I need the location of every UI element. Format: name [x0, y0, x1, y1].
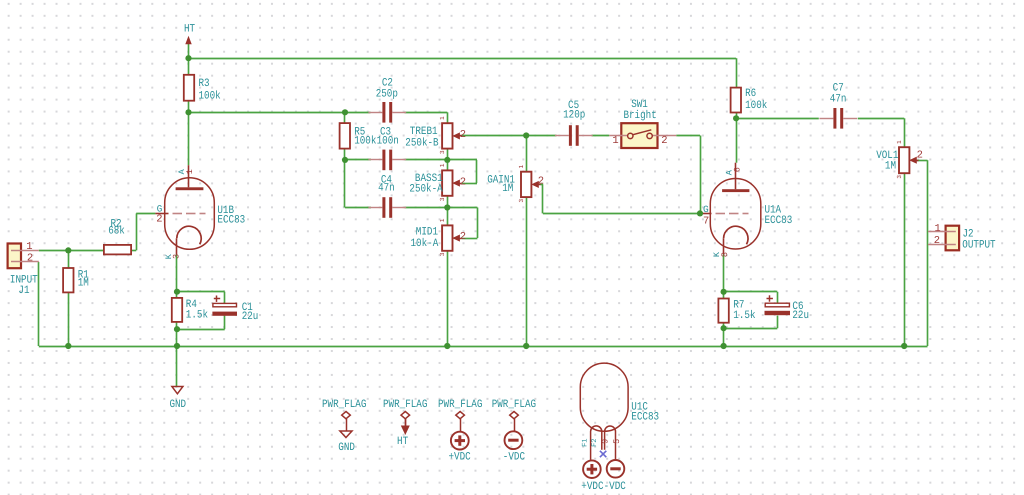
svg-text:47n: 47n	[378, 183, 395, 195]
svg-text:1M: 1M	[502, 183, 513, 195]
svg-text:6: 6	[733, 167, 743, 172]
junction at 723.6,328.2	[721, 325, 727, 331]
capacitor C7	[833, 108, 836, 129]
wire J1 to R2	[39, 250, 104, 252]
wire J1 pin2 down	[38, 262, 40, 346]
wire ground bus	[39, 346, 928, 348]
wire TREB bottom	[447, 149, 449, 160]
wire R7 node to bus	[723, 328, 725, 346]
svg-text:1: 1	[612, 135, 618, 147]
wire C7 to corner	[858, 118, 904, 120]
svg-text:PWR_FLAG: PWR_FLAG	[492, 399, 537, 411]
power flag PWR_FLAG -VDC	[510, 412, 519, 419]
wire C2 to TREB	[405, 112, 448, 114]
wire C3 left	[345, 159, 371, 161]
wire R2 to U1B grid	[131, 250, 136, 252]
svg-text:OUTPUT: OUTPUT	[962, 240, 996, 252]
junction at 447.3,159.9	[444, 157, 450, 163]
wire C5 to SW1	[592, 135, 610, 137]
switch SW1	[621, 123, 657, 148]
wire R4 bottom	[176, 322, 178, 329]
wire BASS bottom	[447, 196, 449, 208]
svg-text:PWR_FLAG: PWR_FLAG	[438, 399, 483, 411]
wire SW1 drop to grid	[700, 136, 702, 214]
power flag PWR_FLAG HT	[401, 412, 410, 419]
wire R5 node down	[344, 160, 346, 208]
capacitor C4	[382, 197, 385, 218]
wire node to U1A anode	[736, 118, 738, 162]
svg-text:2: 2	[917, 150, 923, 162]
wire C6 bottom	[777, 316, 779, 329]
wire R1 to bus	[68, 292, 70, 346]
svg-text:2: 2	[27, 253, 33, 265]
svg-text:1: 1	[935, 223, 941, 235]
resistor R5	[340, 123, 350, 149]
connector J2	[946, 226, 960, 251]
svg-text:120p: 120p	[563, 110, 585, 122]
wire R3 to node	[188, 101, 190, 113]
potentiometer BASS1	[442, 170, 452, 195]
svg-text:10k-A: 10k-A	[411, 237, 439, 250]
junction at 345,112.3	[342, 109, 348, 115]
svg-text:1: 1	[518, 165, 525, 169]
svg-text:3: 3	[896, 175, 903, 179]
junction at 68.3,250.4	[65, 247, 71, 253]
power flag PWR_FLAG GND	[342, 412, 351, 419]
capacitor C2	[382, 102, 385, 123]
svg-text:1: 1	[185, 169, 195, 174]
svg-text:68k: 68k	[108, 225, 125, 238]
junction at 526.2,135.5	[523, 132, 529, 138]
svg-text:-VDC: -VDC	[604, 481, 626, 493]
svg-text:100k: 100k	[745, 99, 767, 112]
resistor R6	[731, 88, 741, 113]
wire U1A cathode down	[723, 255, 725, 292]
wire R6 to node	[736, 113, 738, 119]
wire BASS top	[447, 160, 449, 171]
svg-text:1.5k: 1.5k	[186, 309, 208, 322]
svg-text:1: 1	[26, 241, 32, 253]
wire TREB top drop	[447, 112, 449, 124]
svg-text:1: 1	[439, 218, 446, 222]
wire R7 top	[723, 292, 725, 299]
junction at 447.3,346	[444, 343, 450, 349]
capacitor C3	[382, 150, 385, 171]
wire rail to R6	[736, 58, 738, 87]
wire C4 left	[345, 207, 371, 209]
junction at 904.2,346	[901, 343, 907, 349]
wire top HT rail	[189, 58, 737, 60]
svg-text:3: 3	[439, 150, 446, 154]
capacitor C6	[765, 303, 789, 307]
svg-text:1M: 1M	[885, 161, 896, 173]
resistor R7	[718, 299, 728, 323]
wire node to bus	[176, 329, 178, 346]
wire MID top	[447, 208, 449, 226]
potentiometer GAIN1	[521, 172, 531, 197]
svg-text:1: 1	[439, 163, 446, 167]
junction at 723.6,346	[721, 343, 727, 349]
wire C1 bottom	[224, 316, 226, 330]
svg-text:250k-B: 250k-B	[405, 136, 439, 149]
wire VOL1 wiper to J2	[916, 160, 928, 162]
svg-text:-VDC: -VDC	[503, 452, 525, 464]
wire bus to GND	[176, 346, 178, 387]
wire node to R1	[68, 250, 70, 268]
wire C4 right	[405, 207, 448, 209]
junction at 700,213.4	[697, 210, 703, 216]
wire node to R5	[344, 112, 346, 123]
svg-text:F1: F1	[581, 438, 589, 446]
svg-text:1.5k: 1.5k	[733, 309, 755, 322]
svg-text:ECC83: ECC83	[217, 215, 245, 227]
wire BASS wiper loop	[462, 183, 477, 185]
capacitor C1	[213, 303, 237, 306]
wire GAIN bottom to bus	[526, 197, 528, 346]
wire HT stem	[188, 44, 190, 58]
svg-text:HT: HT	[397, 436, 408, 448]
wire node to C7	[736, 118, 819, 120]
svg-text:8: 8	[720, 252, 730, 257]
svg-text:ECC83: ECC83	[631, 411, 659, 423]
power -VDC under U1C	[607, 460, 625, 478]
svg-text:F2: F2	[591, 438, 599, 446]
svg-text:1: 1	[896, 140, 903, 144]
wire cathode to C6	[724, 291, 778, 293]
svg-text:250p: 250p	[376, 88, 398, 100]
svg-text:+VDC: +VDC	[581, 481, 603, 493]
svg-text:2: 2	[538, 176, 544, 188]
svg-text:R3: R3	[199, 78, 210, 90]
potentiometer VOL1	[899, 147, 909, 173]
svg-text:J2: J2	[963, 228, 974, 240]
wire U1B cathode down	[176, 255, 178, 292]
svg-text:2: 2	[460, 231, 466, 243]
capacitor C5	[569, 125, 572, 146]
wire GAIN top	[526, 136, 528, 172]
svg-text:22u: 22u	[242, 311, 259, 323]
svg-text:+VDC: +VDC	[449, 452, 471, 464]
junction at 177,346	[174, 343, 180, 349]
junction at 723.6,291.8	[721, 289, 727, 295]
svg-text:R6: R6	[745, 88, 756, 100]
tube heater U1C	[580, 363, 628, 431]
svg-text:ECC83: ECC83	[765, 215, 793, 227]
junction at 188.5,58.2	[185, 55, 191, 61]
power flag PWR_FLAG +VDC	[456, 412, 465, 419]
svg-text:47n: 47n	[830, 93, 847, 105]
svg-text:3: 3	[439, 252, 446, 256]
wire C3 right	[405, 159, 448, 161]
wire anode rail left	[189, 112, 371, 114]
svg-text:1: 1	[439, 116, 446, 120]
resistor R4	[172, 298, 182, 322]
junction at 188.5,112.3	[185, 109, 191, 115]
connector J1	[8, 244, 21, 269]
wire TREB wiper to C5	[461, 135, 556, 137]
resistor R2	[104, 245, 131, 255]
triode U1B	[165, 178, 215, 250]
svg-text:J1: J1	[18, 285, 29, 297]
wire R7 bottom	[723, 323, 725, 329]
junction at 68.3,346	[65, 343, 71, 349]
svg-text:3: 3	[439, 197, 446, 201]
svg-text:Bright: Bright	[623, 109, 656, 122]
power +VDC under U1C	[583, 460, 601, 478]
junction at 736.1,118.3	[733, 115, 739, 121]
potentiometer MID1	[442, 225, 452, 250]
svg-text:5: 5	[612, 439, 622, 444]
wire MID bottom to bus	[447, 251, 449, 346]
svg-text:9: 9	[600, 439, 610, 444]
svg-text:TREB1: TREB1	[410, 126, 438, 138]
svg-text:2: 2	[460, 176, 466, 188]
ground symbol	[172, 387, 183, 394]
svg-text:2: 2	[460, 129, 466, 141]
wire cathode to C1	[177, 291, 225, 293]
junction at 177,291.7	[174, 289, 180, 295]
wire VOL1 bottom to bus	[904, 173, 906, 346]
svg-text:HT: HT	[184, 24, 195, 36]
svg-text:3: 3	[171, 254, 181, 259]
wire HT to R3	[188, 58, 190, 75]
junction at 345,159.9	[342, 157, 348, 163]
svg-text:GND: GND	[170, 399, 187, 411]
junction at 447.3,207.5	[444, 204, 450, 210]
svg-text:250k-A: 250k-A	[409, 183, 443, 196]
svg-text:100k: 100k	[354, 134, 376, 147]
wire SW1 out	[676, 135, 700, 137]
svg-text:SW1: SW1	[631, 99, 648, 111]
junction at 526.2,346	[523, 343, 529, 349]
potentiometer TREB1	[442, 123, 452, 148]
svg-text:2: 2	[934, 235, 940, 247]
svg-text:7: 7	[703, 215, 709, 227]
svg-text:PWR_FLAG: PWR_FLAG	[322, 399, 367, 411]
svg-text:2: 2	[156, 213, 162, 225]
svg-text:22u: 22u	[792, 310, 809, 322]
wire MID wiper loop	[462, 238, 478, 240]
wire corner to VOL1	[904, 118, 906, 147]
junction at 177,329.2	[174, 326, 180, 332]
power HT	[186, 37, 191, 44]
svg-text:1M: 1M	[78, 278, 89, 290]
svg-text:2: 2	[661, 135, 667, 147]
no-connect X	[600, 451, 606, 457]
svg-text:C3: C3	[380, 127, 391, 139]
svg-text:G: G	[703, 204, 709, 215]
wire GAIN wiper	[541, 184, 544, 186]
wire U1B anode drop	[188, 112, 190, 165]
svg-text:GND: GND	[338, 442, 355, 454]
resistor R1	[63, 268, 73, 292]
resistor R3	[184, 75, 194, 101]
wire R5 to C3 node	[344, 149, 346, 160]
svg-text:100k: 100k	[199, 90, 221, 103]
svg-text:3: 3	[518, 199, 525, 203]
svg-text:PWR_FLAG: PWR_FLAG	[383, 399, 428, 411]
wire R4 top	[176, 292, 178, 298]
triode U1A	[710, 179, 761, 250]
